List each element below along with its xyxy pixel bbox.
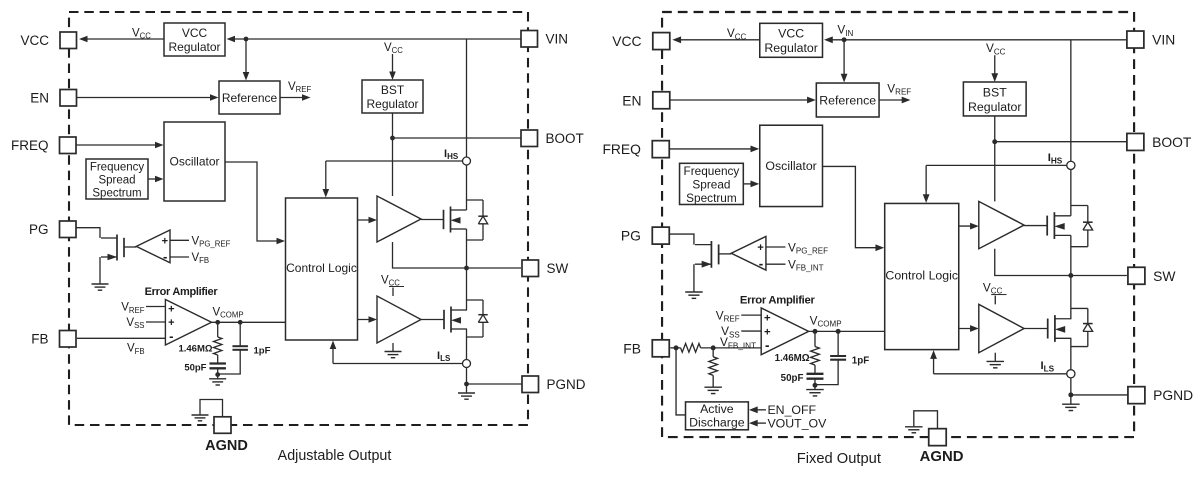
svg-text:1pF: 1pF — [254, 345, 271, 356]
svg-text:50pF: 50pF — [781, 373, 804, 384]
svg-text:FREQ: FREQ — [11, 138, 49, 153]
svg-text:BST: BST — [381, 83, 405, 97]
svg-text:Reference: Reference — [819, 94, 876, 108]
svg-text:EN: EN — [622, 92, 641, 108]
svg-text:Spectrum: Spectrum — [686, 191, 737, 205]
svg-text:Frequency: Frequency — [90, 162, 145, 174]
svg-text:+: + — [168, 304, 174, 316]
svg-text:BOOT: BOOT — [1152, 134, 1192, 150]
svg-text:VOUT_OV: VOUT_OV — [767, 417, 827, 431]
svg-text:AGND: AGND — [920, 449, 964, 465]
svg-text:1.46MΩ: 1.46MΩ — [178, 343, 212, 354]
svg-text:VCC: VCC — [182, 26, 208, 40]
svg-text:-: - — [163, 249, 167, 264]
svg-text:+: + — [757, 242, 764, 254]
svg-text:Oscillator: Oscillator — [169, 155, 219, 169]
svg-text:Error Amplifier: Error Amplifier — [740, 294, 816, 306]
svg-text:Discharge: Discharge — [689, 415, 745, 429]
svg-text:+: + — [764, 326, 771, 338]
svg-text:VIN: VIN — [1152, 32, 1175, 48]
svg-text:Error Amplifier: Error Amplifier — [145, 286, 219, 298]
svg-text:Spectrum: Spectrum — [92, 188, 141, 200]
svg-text:1pF: 1pF — [852, 355, 869, 366]
svg-text:BST: BST — [983, 85, 1007, 99]
svg-text:+: + — [168, 317, 174, 329]
svg-text:FB: FB — [623, 340, 641, 356]
svg-text:AGND: AGND — [205, 438, 248, 454]
svg-text:Control Logic: Control Logic — [286, 261, 357, 275]
svg-text:VCC: VCC — [778, 27, 804, 41]
svg-text:-: - — [759, 256, 763, 271]
svg-text:Spread: Spread — [692, 178, 730, 192]
svg-text:Reference: Reference — [222, 91, 278, 105]
svg-text:Regulator: Regulator — [168, 40, 220, 54]
svg-text:Control Logic: Control Logic — [885, 269, 958, 283]
svg-text:PG: PG — [621, 228, 641, 244]
svg-text:Active: Active — [700, 402, 734, 416]
svg-text:Frequency: Frequency — [683, 164, 739, 178]
svg-text:EN: EN — [30, 91, 49, 106]
svg-text:SW: SW — [1153, 268, 1176, 284]
svg-text:PGND: PGND — [547, 377, 586, 392]
svg-text:Regulator: Regulator — [764, 41, 817, 55]
svg-text:PGND: PGND — [1153, 387, 1193, 403]
svg-text:-: - — [765, 338, 769, 353]
svg-text:Spread: Spread — [98, 175, 135, 187]
svg-text:PG: PG — [29, 222, 49, 237]
svg-text:Oscillator: Oscillator — [765, 159, 816, 173]
svg-text:Regulator: Regulator — [366, 97, 418, 111]
svg-text:VCC: VCC — [612, 33, 641, 49]
svg-text:EN_OFF: EN_OFF — [767, 403, 816, 417]
svg-text:1.46MΩ: 1.46MΩ — [775, 353, 810, 364]
svg-text:VCC: VCC — [20, 33, 49, 48]
svg-text:BOOT: BOOT — [546, 131, 584, 146]
svg-text:FREQ: FREQ — [602, 141, 641, 157]
svg-text:50pF: 50pF — [184, 363, 206, 374]
svg-text:+: + — [162, 235, 168, 247]
svg-text:Adjustable Output: Adjustable Output — [278, 448, 392, 464]
svg-text:Fixed Output: Fixed Output — [797, 451, 881, 467]
svg-text:+: + — [764, 313, 771, 325]
svg-text:VIN: VIN — [546, 32, 569, 47]
svg-text:-: - — [169, 329, 173, 344]
svg-text:Regulator: Regulator — [968, 100, 1021, 114]
svg-text:SW: SW — [547, 261, 569, 276]
svg-text:FB: FB — [31, 332, 48, 347]
